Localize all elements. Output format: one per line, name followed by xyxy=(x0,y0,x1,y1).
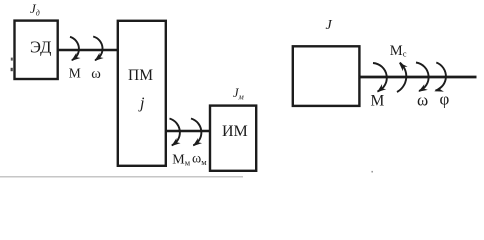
arrow arc omega_m (shaft2 speed) xyxy=(191,119,201,146)
svg-text:Jд: Jд xyxy=(30,1,40,18)
wire shaft3 (equivalent shaft) xyxy=(359,76,477,79)
svg-text:ω: ω xyxy=(417,91,428,110)
scan speck left margin xyxy=(11,68,13,71)
arrow arc M (equivalent torque) xyxy=(373,63,387,92)
wire shaft1 (motor to gear) xyxy=(58,49,119,51)
svg-text:Jм: Jм xyxy=(233,86,244,102)
arrow arc M_c (load torque, opposing) xyxy=(397,63,406,92)
svg-text:j: j xyxy=(138,95,145,112)
svg-text:Мм: Мм xyxy=(172,153,190,168)
scan artifact bottom edge line xyxy=(0,176,243,178)
svg-text:Мс: Мс xyxy=(390,43,407,59)
svg-text:М: М xyxy=(371,92,385,109)
scan speck left margin 2 xyxy=(11,58,13,61)
svg-text:φ: φ xyxy=(440,90,450,109)
svg-text:ИМ: ИМ xyxy=(222,123,248,140)
svg-text:ωм: ωм xyxy=(192,151,207,167)
svg-text:J: J xyxy=(326,18,333,33)
box ПМ (transmission) xyxy=(118,21,166,166)
scan speck lower right xyxy=(371,171,373,173)
arrow arc phi (rotation angle) xyxy=(436,63,446,91)
svg-text:ПМ: ПМ xyxy=(128,67,153,84)
arrow arc M (shaft1 torque) xyxy=(70,37,79,60)
box ИМ (actuator) xyxy=(210,106,256,171)
box ЭД (motor) xyxy=(15,21,58,79)
arrow arc omega (equivalent speed) xyxy=(416,63,429,92)
svg-text:ЭД: ЭД xyxy=(30,38,52,57)
arrow arc omega (shaft1 speed) xyxy=(93,37,102,61)
svg-text:ω: ω xyxy=(91,66,101,82)
wire shaft2 (gear to actuator) xyxy=(166,130,210,132)
svg-text:М: М xyxy=(69,66,81,81)
arrow arc M_m (shaft2 torque) xyxy=(170,119,180,146)
box J (equivalent inertia) xyxy=(293,46,360,106)
